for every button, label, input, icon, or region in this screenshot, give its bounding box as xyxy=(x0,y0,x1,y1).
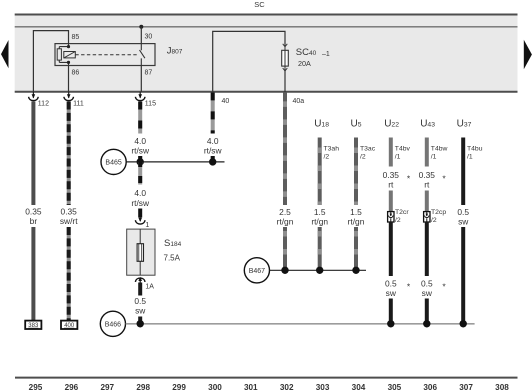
wire U43 (0.35 rt) upper xyxy=(425,138,429,167)
fuse S184 pin 1 cup xyxy=(135,217,149,229)
junction B465-40 xyxy=(209,158,216,165)
svg-text:/1: /1 xyxy=(395,153,401,160)
track numbers xyxy=(29,383,510,391)
svg-text:307: 307 xyxy=(459,383,473,391)
svg-text:306: 306 xyxy=(423,383,437,391)
svg-text:sw: sw xyxy=(386,288,397,298)
terminal 115 cup xyxy=(135,92,156,108)
wire B465 to fuse S184 (4.0 rt/sw) xyxy=(138,162,142,185)
svg-text:rt/gn: rt/gn xyxy=(348,216,365,226)
terminal 112 cup xyxy=(29,92,49,108)
fuse S184 xyxy=(127,229,182,275)
svg-text:sw: sw xyxy=(458,216,469,226)
wire node B465 rail xyxy=(126,161,224,163)
svg-text:4.0: 4.0 xyxy=(134,188,146,198)
svg-text:304: 304 xyxy=(352,383,366,391)
wire U22 to T2cr xyxy=(389,191,393,212)
wire 112 (0.35 br) upper xyxy=(31,102,35,206)
wire loop terminal 40 to fuse SC40 xyxy=(213,31,285,92)
wire S184 out (0.5 sw) xyxy=(138,283,142,296)
svg-text:/1: /1 xyxy=(467,153,473,160)
svg-text:300: 300 xyxy=(208,383,222,391)
svg-text:115: 115 xyxy=(145,101,156,108)
wire bus to pin 30 xyxy=(140,27,142,44)
svg-text:40: 40 xyxy=(222,98,230,105)
svg-text:/2: /2 xyxy=(324,153,330,160)
svg-text:B467: B467 xyxy=(249,268,265,275)
svg-text:1: 1 xyxy=(145,222,149,229)
wire 40 to node B465 xyxy=(211,156,215,162)
svg-text:rt: rt xyxy=(388,179,394,189)
svg-text:–1: –1 xyxy=(322,51,330,58)
svg-text:30: 30 xyxy=(145,34,153,41)
wire T2cp down (0.5 sw) xyxy=(425,222,429,276)
svg-text:SC: SC xyxy=(254,0,265,9)
inline connector T2cp xyxy=(424,209,447,224)
svg-text:112: 112 xyxy=(38,101,49,108)
svg-text:T2cp: T2cp xyxy=(431,209,446,216)
svg-text:302: 302 xyxy=(280,383,294,391)
svg-text:rt/gn: rt/gn xyxy=(277,216,294,226)
svg-text:299: 299 xyxy=(172,383,186,391)
svg-text:rt/sw: rt/sw xyxy=(131,198,150,208)
svg-text:298: 298 xyxy=(136,383,150,391)
wire pin86 down xyxy=(68,66,70,93)
svg-text:295: 295 xyxy=(29,383,43,391)
junction B467-40a xyxy=(281,267,288,274)
right continuation arrow xyxy=(524,40,532,70)
svg-text:301: 301 xyxy=(244,383,258,391)
wire 40a (2.5 rt/gn) xyxy=(283,92,287,205)
junction B466-U37 xyxy=(460,320,467,327)
node B467 xyxy=(244,258,269,283)
left continuation arrow xyxy=(1,40,9,68)
svg-text:/2: /2 xyxy=(431,217,437,224)
wire U18 to node B467 xyxy=(318,227,322,270)
svg-text:T3ac: T3ac xyxy=(360,145,376,152)
svg-text:T3ah: T3ah xyxy=(324,145,340,152)
svg-text:/2: /2 xyxy=(360,153,366,160)
svg-text:rt/gn: rt/gn xyxy=(311,216,328,226)
wire 40a to node B467 xyxy=(283,227,287,270)
svg-text:4.0: 4.0 xyxy=(207,136,219,146)
wire pin87 down xyxy=(140,66,142,93)
mechanical link (dashed) xyxy=(75,54,139,56)
svg-text:40a: 40a xyxy=(293,98,305,105)
svg-text:86: 86 xyxy=(72,70,80,77)
svg-text:sw/rt: sw/rt xyxy=(60,216,78,226)
junction on bus 30 xyxy=(139,25,143,29)
svg-text:4.0: 4.0 xyxy=(134,136,146,146)
svg-text:85: 85 xyxy=(72,34,80,41)
svg-text:B466: B466 xyxy=(105,322,121,329)
wire U22 (0.35 rt) upper xyxy=(389,138,393,167)
fuse SC40 xyxy=(282,44,330,92)
wire to node B466 xyxy=(138,317,142,324)
svg-text:br: br xyxy=(30,216,38,226)
svg-text:B465: B465 xyxy=(105,160,121,167)
wire U37 to node B466 xyxy=(461,227,465,324)
relay armature xyxy=(64,52,76,58)
svg-text:sw: sw xyxy=(135,306,146,316)
wire 111 (0.35 sw/rt) upper xyxy=(67,102,71,206)
svg-text:20A: 20A xyxy=(298,59,311,68)
wire node B467 rail xyxy=(270,269,366,271)
svg-text:303: 303 xyxy=(316,383,330,391)
svg-text:/1: /1 xyxy=(431,153,437,160)
svg-text:/2: /2 xyxy=(395,217,401,224)
relay J807 xyxy=(55,34,183,77)
wire U18 (1.5 rt/gn) upper xyxy=(318,138,322,206)
wire U5 to node B467 xyxy=(354,227,358,270)
svg-text:305: 305 xyxy=(388,383,402,391)
svg-text:308: 308 xyxy=(495,383,509,391)
fuse S184 pin 1A cup xyxy=(135,277,154,291)
wire U5 (1.5 rt/gn) upper xyxy=(354,138,358,206)
wire 111 lower xyxy=(67,227,71,321)
svg-text:rt: rt xyxy=(424,179,430,189)
svg-text:T4bw: T4bw xyxy=(431,145,448,152)
wire T2cr down (0.5 sw) xyxy=(389,222,393,276)
wire 40 (4.0 rt/sw) xyxy=(211,92,215,133)
wire 115 to node B465 xyxy=(138,156,142,162)
ground 400 xyxy=(61,321,77,330)
node B466 xyxy=(100,311,125,336)
junction B467-U5 xyxy=(352,267,359,274)
wire 112 lower xyxy=(31,227,35,321)
svg-text:T4bv: T4bv xyxy=(395,145,411,152)
svg-text:7.5A: 7.5A xyxy=(164,254,181,263)
junction B466-U22 xyxy=(387,320,394,327)
wire into fuse S184 xyxy=(138,209,142,218)
svg-text:rt/sw: rt/sw xyxy=(131,146,150,156)
wire pin85 to terminal 112 xyxy=(33,31,68,92)
svg-text:1A: 1A xyxy=(145,284,154,291)
terminal 111 cup xyxy=(64,92,84,108)
svg-text:297: 297 xyxy=(100,383,114,391)
junction B465-115 xyxy=(137,158,144,165)
power supply band xyxy=(15,14,518,92)
relay coil xyxy=(57,49,61,60)
junction B466-S184 xyxy=(137,320,144,327)
svg-text:87: 87 xyxy=(145,70,153,77)
relay coil loop xyxy=(59,44,68,66)
bus 30 rail xyxy=(15,26,518,28)
inline connector T2cr xyxy=(388,209,410,224)
node B465 xyxy=(101,149,126,174)
svg-text:T4bu: T4bu xyxy=(467,145,483,152)
svg-text:296: 296 xyxy=(65,383,79,391)
wire U43 to T2cp xyxy=(425,191,429,212)
svg-text:T2cr: T2cr xyxy=(395,209,409,216)
relay switch contact xyxy=(140,44,145,66)
ground 383 xyxy=(25,321,41,330)
svg-text:111: 111 xyxy=(73,101,84,108)
current track axis xyxy=(15,377,518,379)
svg-text:0.5: 0.5 xyxy=(134,296,146,306)
junction B467-U18 xyxy=(316,267,323,274)
svg-text:sw: sw xyxy=(422,288,433,298)
svg-text:rt/sw: rt/sw xyxy=(204,146,223,156)
wire U22 to node B466 xyxy=(389,299,393,324)
wire U43 to node B466 xyxy=(425,299,429,324)
junction B466-U43 xyxy=(423,320,430,327)
wire U37 (0.5 sw) upper xyxy=(461,138,465,206)
wire 115 (4.0 rt/sw) upper xyxy=(138,102,142,134)
wire node B466 rail xyxy=(126,323,475,325)
